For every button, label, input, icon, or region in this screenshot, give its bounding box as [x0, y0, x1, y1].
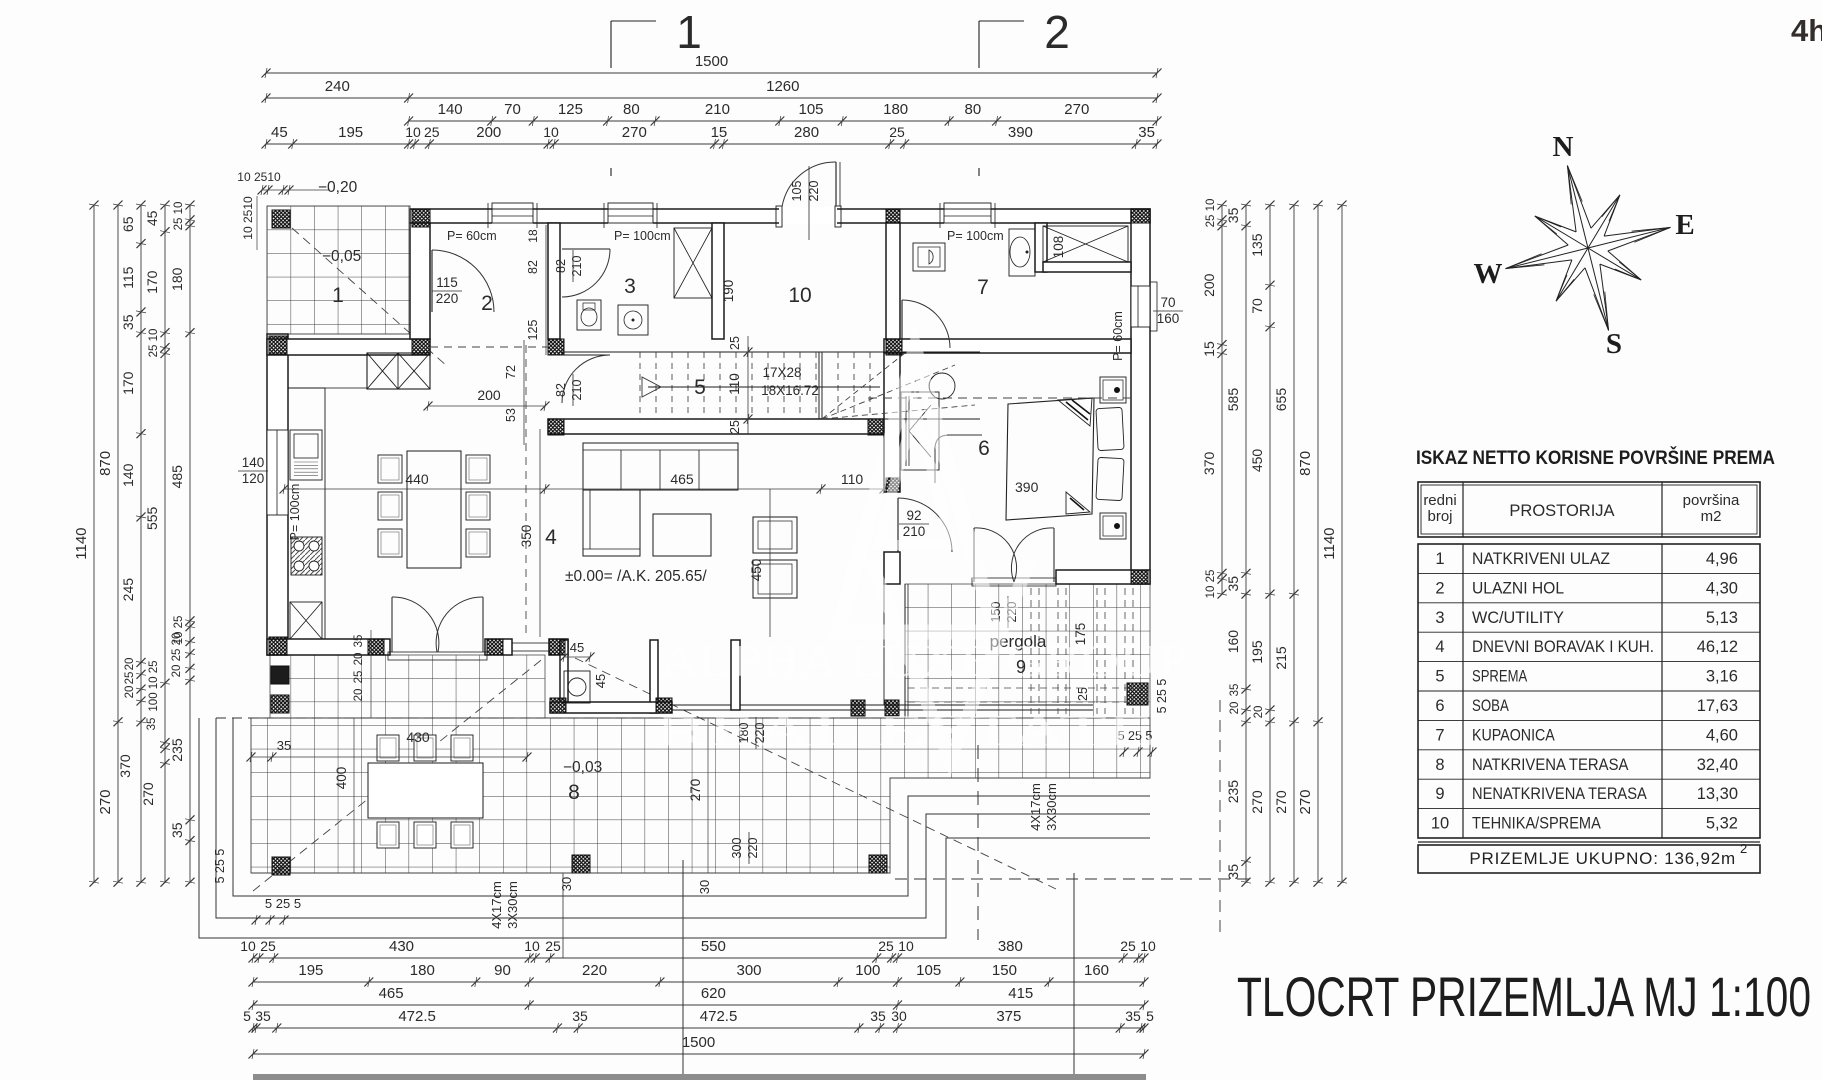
svg-text:472.5: 472.5: [398, 1008, 436, 1025]
svg-text:1260: 1260: [766, 78, 799, 95]
column porch-hall top: [412, 209, 430, 227]
window 70x160 top wall: [492, 203, 533, 228]
dimension chain left chain 1140: [93, 205, 95, 882]
column porch top-left: [272, 210, 290, 228]
mini chain 35-20-25-20: [370, 630, 372, 718]
svg-text:380: 380: [998, 938, 1023, 955]
svg-text:370: 370: [117, 754, 133, 778]
svg-text:585: 585: [1225, 388, 1241, 412]
svg-text:10: 10: [1431, 815, 1449, 833]
svg-text:220: 220: [746, 838, 760, 859]
watermark logo triangle: [838, 350, 1030, 760]
svg-text:485: 485: [169, 465, 185, 489]
svg-text:2: 2: [1435, 579, 1444, 597]
dashed extension x1220: [1219, 700, 1221, 940]
terrace diagonal dashed: [575, 658, 1056, 889]
interior vdim 350: [539, 429, 541, 637]
outer wall left: [267, 334, 288, 655]
porch tiles room 1: [267, 206, 410, 334]
bottom separator vertical 2: [1073, 873, 1075, 1080]
svg-text:35: 35: [353, 635, 365, 648]
bottom separator vertical 1: [682, 860, 684, 1080]
svg-text:5,32: 5,32: [1706, 815, 1738, 833]
kitchen sink unit: [290, 430, 322, 480]
svg-text:REAL ESTATE: REAL ESTATE: [655, 706, 1155, 755]
svg-text:90: 90: [494, 962, 511, 979]
svg-text:870: 870: [97, 451, 114, 476]
column stairs wall left bottom: [548, 419, 564, 435]
svg-text:110: 110: [841, 471, 864, 487]
svg-text:−0,05: −0,05: [322, 248, 361, 265]
dimension chain bottom row 4: [253, 1027, 1144, 1029]
round stool: [929, 373, 955, 399]
svg-text:5 25 5: 5 25 5: [213, 849, 227, 884]
svg-text:120: 120: [242, 471, 265, 486]
kitchen upper cabinet dashed: [288, 355, 367, 388]
svg-text:10: 10: [1140, 938, 1156, 954]
svg-text:4: 4: [545, 526, 557, 549]
svg-text:45: 45: [593, 674, 608, 688]
svg-text:±0.00= /A.K. 205.65/: ±0.00= /A.K. 205.65/: [565, 568, 707, 585]
svg-text:108: 108: [1051, 236, 1066, 259]
svg-text:1140: 1140: [1321, 527, 1338, 559]
svg-text:TLOCRT PRIZEMLJA MJ 1:100: TLOCRT PRIZEMLJA MJ 1:100: [1237, 965, 1811, 1028]
svg-text:300: 300: [730, 838, 744, 859]
svg-text:170: 170: [144, 270, 160, 294]
dashed hall-kitchen boundary: [430, 346, 548, 348]
svg-text:18X16.72: 18X16.72: [761, 383, 819, 398]
terrace step edge line 2: [233, 718, 1150, 896]
wc toilet: [577, 300, 601, 330]
axis marker 2: [978, 21, 980, 68]
svg-text:870: 870: [1297, 451, 1314, 476]
entrance door 105x220: [776, 206, 782, 227]
svg-text:30: 30: [559, 877, 574, 891]
svg-text:4h: 4h: [1791, 13, 1822, 48]
svg-text:18: 18: [526, 229, 540, 243]
svg-text:210: 210: [570, 256, 584, 277]
svg-text:300: 300: [736, 962, 761, 979]
window 80x120 top wall right: [944, 203, 991, 228]
corridor south wall: [884, 339, 1131, 353]
chair: [466, 492, 490, 520]
svg-text:25: 25: [728, 420, 742, 434]
terrace chair bottom: [377, 822, 399, 848]
svg-text:235: 235: [169, 738, 185, 762]
svg-text:32,40: 32,40: [1697, 756, 1738, 774]
svg-text:200: 200: [477, 387, 501, 403]
svg-text:5: 5: [1146, 1008, 1154, 1024]
svg-text:450: 450: [749, 559, 764, 582]
svg-text:5: 5: [243, 1008, 251, 1024]
wall extension below bedroom wall: [883, 584, 885, 705]
column south wall x551: [549, 639, 565, 655]
dimension chain right chain C: [1269, 205, 1271, 882]
outer wall right: [1131, 209, 1150, 584]
svg-text:površina: površina: [1683, 492, 1740, 509]
svg-text:210: 210: [705, 101, 730, 118]
porch bottom wall: [267, 339, 430, 355]
terrace chair bottom: [451, 822, 473, 848]
terrace chair top: [414, 735, 436, 761]
alcove right wall: [650, 640, 658, 713]
svg-text:ISKAZ NETTO KORISNE POVRŠINE P: ISKAZ NETTO KORISNE POVRŠINE PREMA: [1416, 445, 1775, 469]
dashed ground line bottom right: [895, 878, 1255, 880]
svg-text:20: 20: [353, 689, 365, 702]
axis dot 1: [610, 168, 612, 176]
nightstand 1: [1100, 377, 1126, 403]
glass wall post: [731, 640, 740, 710]
svg-text:82: 82: [554, 259, 568, 273]
interior vdim 450: [769, 489, 771, 637]
dimension chain left chain D: [164, 205, 166, 882]
svg-text:30: 30: [697, 880, 712, 894]
chair: [378, 455, 402, 483]
svg-text:25 10: 25 10: [1205, 199, 1217, 228]
svg-text:270: 270: [622, 124, 647, 141]
svg-text:430: 430: [389, 938, 414, 955]
extension line x563: [562, 873, 564, 958]
pillow 1: [1096, 407, 1124, 450]
svg-text:80: 80: [623, 101, 640, 118]
svg-text:110: 110: [727, 373, 742, 395]
dimension chain top row 4: [266, 143, 1157, 145]
svg-text:1500: 1500: [682, 1034, 715, 1051]
column porch wall right: [412, 339, 430, 355]
alcove bottom wall: [550, 702, 672, 713]
svg-text:ULAZNI HOL: ULAZNI HOL: [1472, 579, 1564, 597]
post outside left wall hatched: [271, 695, 289, 713]
wardrobe K: [901, 392, 939, 470]
svg-text:1: 1: [1435, 550, 1444, 568]
hall-wc wall: [548, 223, 560, 339]
svg-text:W: W: [1474, 258, 1503, 290]
svg-text:215: 215: [1273, 646, 1289, 670]
dimension chain bottom row 1: [253, 957, 1144, 959]
svg-text:25: 25: [124, 672, 136, 685]
terrace chair top: [377, 735, 399, 761]
bath east wall: [1035, 223, 1047, 272]
svg-text:65: 65: [120, 216, 136, 232]
porch-hall wall: [410, 223, 430, 339]
dimension chain top row 3: [409, 120, 1157, 122]
dimension chain left chain C: [140, 205, 142, 882]
svg-text:160: 160: [1084, 962, 1109, 979]
dimension chain left chain 870-270: [117, 205, 119, 882]
svg-text:30: 30: [891, 1008, 907, 1024]
svg-text:13,30: 13,30: [1697, 785, 1738, 803]
svg-text:105: 105: [916, 962, 941, 979]
svg-text:555: 555: [144, 506, 160, 530]
south wall segment right of door: [485, 639, 512, 655]
door 115x220 porch to hall: [431, 250, 433, 312]
svg-text:PROSTORIJA: PROSTORIJA: [1509, 502, 1614, 520]
svg-text:4,30: 4,30: [1706, 579, 1738, 597]
chimney shaft double X: [367, 353, 430, 389]
svg-text:235: 235: [1225, 780, 1241, 804]
svg-text:105: 105: [790, 181, 804, 202]
svg-text:220: 220: [436, 291, 459, 306]
dimension chain top row 240-1260: [266, 97, 1157, 99]
axis 2 dashed extension bottom: [977, 745, 979, 940]
svg-text:72: 72: [504, 365, 518, 379]
svg-text:KUPAONICA: KUPAONICA: [1472, 726, 1555, 744]
svg-text:180: 180: [883, 101, 908, 118]
bath washbasin: [1009, 229, 1035, 276]
area table: [1418, 482, 1760, 873]
mini vdim 72 53: [523, 340, 525, 445]
porch diagonal dashed: [292, 228, 448, 367]
stairs flight room 5: [560, 351, 980, 353]
svg-text:270: 270: [1273, 790, 1289, 814]
svg-text:2: 2: [1044, 6, 1070, 58]
column left wall upper: [269, 336, 287, 354]
svg-text:35: 35: [1138, 124, 1155, 141]
svg-text:4,96: 4,96: [1706, 550, 1738, 568]
svg-text:115: 115: [436, 275, 458, 290]
svg-text:20: 20: [124, 658, 136, 671]
dimension chain bottom row 1500: [253, 1053, 1144, 1055]
svg-text:3X30cm: 3X30cm: [1044, 783, 1059, 831]
wc washbasin: [618, 305, 648, 335]
chair: [466, 529, 490, 557]
svg-text:WC/UTILITY: WC/UTILITY: [1472, 609, 1564, 627]
svg-text:53: 53: [504, 408, 518, 422]
svg-text:46,12: 46,12: [1697, 638, 1738, 656]
door 82x210 to storage 5: [562, 354, 610, 356]
svg-text:20 25 20: 20 25 20: [171, 633, 183, 678]
outer wall top: [410, 209, 1150, 223]
svg-text:160: 160: [1225, 630, 1241, 654]
svg-text:S: S: [1606, 328, 1622, 360]
svg-text:150: 150: [992, 962, 1017, 979]
svg-text:TEHNIKA/SPREMA: TEHNIKA/SPREMA: [1472, 815, 1601, 833]
svg-text:10: 10: [788, 284, 811, 307]
svg-text:2: 2: [1740, 841, 1747, 856]
svg-text:270: 270: [1297, 789, 1314, 814]
door 82x210 to bathroom 7: [901, 300, 903, 348]
svg-text:10 25: 10 25: [1205, 570, 1217, 599]
svg-text:25: 25: [545, 938, 561, 954]
french door 150x220 bedroom to pergola: [973, 528, 975, 582]
stairs winder dashed lines: [822, 353, 905, 419]
svg-text:200: 200: [1201, 273, 1217, 297]
svg-text:redni: redni: [1423, 492, 1456, 509]
column south wall right of door: [487, 639, 503, 655]
wc tall cabinet X: [674, 228, 712, 298]
svg-text:PRIZEMLJE UKUPNO: 136,92m: PRIZEMLJE UKUPNO: 136,92m: [1469, 849, 1736, 868]
svg-text:655: 655: [1273, 388, 1289, 412]
svg-text:SPREMA: SPREMA: [1472, 668, 1527, 686]
svg-text:35: 35: [1125, 1008, 1141, 1024]
svg-text:45: 45: [570, 640, 584, 655]
svg-text:92: 92: [906, 508, 921, 523]
window 70x160 right wall: [1131, 286, 1150, 327]
drain square terrace mid-right: [869, 855, 887, 873]
svg-text:4: 4: [1435, 638, 1444, 656]
svg-text:1: 1: [332, 284, 344, 307]
column stairs wall right top: [886, 339, 902, 355]
tehnika-bath wall: [886, 223, 900, 352]
svg-text:NATKRIVENI ULAZ: NATKRIVENI ULAZ: [1472, 550, 1610, 568]
svg-text:35: 35: [1225, 576, 1241, 592]
svg-text:160: 160: [1157, 311, 1180, 326]
svg-text:450: 450: [1249, 449, 1265, 473]
alcove sink: [564, 671, 590, 703]
svg-text:P= 100cm: P= 100cm: [288, 484, 302, 541]
svg-text:15: 15: [711, 124, 728, 141]
svg-text:35: 35: [572, 1008, 588, 1024]
svg-text:140: 140: [438, 101, 463, 118]
pergola west edge lines: [904, 584, 906, 718]
stairs landing rounded corner: [935, 435, 982, 483]
svg-text:190: 190: [721, 280, 736, 303]
post terrace rail right: [885, 700, 899, 716]
svg-text:390: 390: [1008, 124, 1033, 141]
svg-text:3: 3: [624, 275, 636, 298]
svg-text:400: 400: [334, 767, 349, 790]
wc-tehnika wall: [712, 223, 724, 339]
svg-text:35: 35: [277, 738, 291, 753]
dashed room divider: [525, 345, 527, 635]
door 92x210 living to bedroom: [897, 498, 899, 552]
svg-text:25: 25: [1120, 938, 1136, 954]
dining table: [407, 451, 461, 568]
svg-text:35: 35: [146, 718, 158, 731]
svg-text:240: 240: [325, 78, 350, 95]
french door 180x220 to terrace: [389, 639, 391, 655]
overhang dashed bedroom: [868, 397, 1131, 399]
svg-text:8: 8: [568, 781, 580, 804]
svg-text:10 2510: 10 2510: [241, 196, 255, 240]
svg-text:25: 25: [878, 938, 894, 954]
svg-text:125: 125: [526, 320, 540, 341]
svg-text:472.5: 472.5: [700, 1008, 738, 1025]
stairs mini dim line: [747, 336, 749, 434]
svg-text:125: 125: [558, 101, 583, 118]
chair: [378, 492, 402, 520]
svg-text:245: 245: [120, 578, 136, 602]
svg-text:DNEVNI BORAVAK I KUH.: DNEVNI BORAVAK I KUH.: [1472, 638, 1654, 656]
pergola beams dashed: [1030, 588, 1032, 714]
terrace dining table: [368, 763, 483, 818]
svg-text:45: 45: [271, 124, 288, 141]
svg-text:82: 82: [554, 383, 568, 397]
svg-text:100: 100: [855, 962, 880, 979]
mini vdim 18 82 125: [545, 225, 547, 355]
dimension chain top row 1500: [266, 72, 1157, 74]
svg-text:25: 25: [728, 336, 742, 350]
column left wall bottom: [269, 637, 287, 655]
svg-text:180: 180: [410, 962, 435, 979]
armchair 2: [753, 560, 797, 598]
svg-text:10: 10: [240, 938, 256, 954]
terrace diagonal dashed left: [253, 657, 545, 891]
svg-text:35: 35: [120, 314, 136, 330]
dimension chain right chain F: [1341, 205, 1343, 882]
bedroom south wall: [1056, 570, 1150, 584]
svg-text:10: 10: [898, 938, 914, 954]
axis marker 1: [610, 21, 612, 68]
svg-text:20: 20: [124, 686, 136, 699]
interior dim 440-465-110: [284, 488, 884, 490]
svg-text:NENATKRIVENA TERASA: NENATKRIVENA TERASA: [1472, 785, 1647, 803]
svg-text:35: 35: [870, 1008, 886, 1024]
svg-text:465: 465: [379, 985, 404, 1002]
svg-text:NATKRIVENA TERASA: NATKRIVENA TERASA: [1472, 756, 1628, 774]
svg-text:195: 195: [338, 124, 363, 141]
stairs south wall: [548, 419, 884, 434]
kitchen base cabinet X: [290, 602, 322, 639]
svg-text:15: 15: [1201, 341, 1217, 357]
svg-text:5: 5: [694, 376, 706, 399]
svg-text:25: 25: [889, 124, 905, 140]
svg-text:35: 35: [1225, 864, 1241, 880]
svg-text:140: 140: [242, 455, 265, 470]
post outside left wall solid: [271, 666, 289, 684]
svg-text:17,63: 17,63: [1697, 697, 1738, 715]
door 82x210 hall to wc: [562, 248, 610, 250]
svg-text:25: 25: [424, 124, 440, 140]
svg-text:10: 10: [405, 124, 421, 140]
sofa: [583, 443, 738, 490]
bedroom niche wardrobe X: [1043, 226, 1128, 262]
post pergola corner: [1127, 683, 1148, 705]
svg-text:20: 20: [1229, 702, 1241, 715]
drain square terrace left corner: [272, 857, 290, 875]
south wall stub at alcove: [549, 639, 568, 655]
compass rose: [1506, 166, 1671, 331]
svg-text:5,13: 5,13: [1706, 609, 1738, 627]
svg-text:270: 270: [140, 782, 156, 806]
svg-text:20: 20: [353, 653, 365, 666]
svg-text:35: 35: [1225, 207, 1241, 223]
nightstand 2: [1100, 513, 1126, 539]
dimension chain right chain E: [1317, 205, 1319, 882]
svg-text:80: 80: [965, 101, 982, 118]
svg-text:P= 100cm: P= 100cm: [947, 229, 1004, 243]
svg-text:7: 7: [977, 276, 989, 299]
terrace chair bottom: [414, 822, 436, 848]
svg-text:9: 9: [1435, 785, 1444, 803]
svg-text:70: 70: [1160, 295, 1175, 310]
svg-text:N: N: [1553, 131, 1574, 163]
svg-text:35: 35: [169, 822, 185, 838]
svg-text:4,60: 4,60: [1706, 726, 1738, 744]
terrace step edge line 3: [216, 718, 1150, 918]
svg-text:1: 1: [676, 6, 702, 58]
svg-text:25 10: 25 10: [148, 329, 160, 358]
post alcove bottom-right: [656, 698, 672, 713]
svg-text:10 2510: 10 2510: [237, 170, 281, 184]
pergola 9 tile field: [905, 584, 1150, 718]
window 100cm left wall: [267, 430, 288, 515]
svg-text:10: 10: [543, 124, 559, 140]
svg-text:3,16: 3,16: [1706, 668, 1738, 686]
south wall kitchen segment: [267, 639, 390, 655]
svg-text:115: 115: [120, 266, 136, 289]
svg-text:550: 550: [701, 938, 726, 955]
column bedroom south wall right: [1131, 570, 1148, 584]
svg-text:20: 20: [1253, 706, 1265, 719]
dimension chain right chain D: [1293, 205, 1295, 882]
svg-text:280: 280: [794, 124, 819, 141]
svg-text:10: 10: [524, 938, 540, 954]
dimension chain bottom row 3: [253, 1004, 1144, 1006]
svg-text:270: 270: [1249, 790, 1265, 814]
dimension chain right chain B: [1245, 205, 1247, 882]
svg-text:SOBA: SOBA: [1472, 697, 1509, 715]
